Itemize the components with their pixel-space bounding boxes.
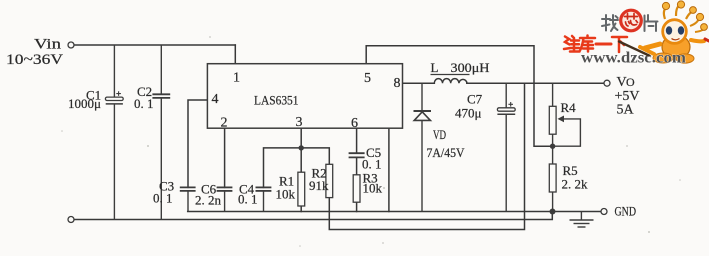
svg-text:www.dzsc.com: www.dzsc.com <box>581 50 687 67</box>
wire R2 bottom to output rail <box>329 83 524 229</box>
svg-text:C7: C7 <box>467 92 483 107</box>
svg-text:300μH: 300μH <box>451 60 490 75</box>
capacitor C7 470u electrolytic <box>497 83 515 211</box>
capacitor C6 2.2n <box>217 187 233 211</box>
svg-text:Vin: Vin <box>34 37 62 53</box>
ground symbol <box>570 212 594 228</box>
wire R1 bottom to ground rail <box>300 206 302 212</box>
bottom return rail <box>74 212 552 220</box>
svg-text:5: 5 <box>364 71 371 86</box>
wire IC ground lead <box>388 128 390 211</box>
svg-text:7A/45V: 7A/45V <box>427 145 466 160</box>
terminal bottom left <box>68 217 74 223</box>
capacitor C1 1000u electrolytic <box>105 45 123 220</box>
svg-text:8: 8 <box>394 76 401 91</box>
svg-text:L: L <box>431 60 439 75</box>
junction dot R4/R5 <box>550 144 555 149</box>
svg-text:R4: R4 <box>561 100 577 115</box>
terminal GND <box>601 209 607 215</box>
wire Vin top rail <box>74 44 235 46</box>
wire node to R2 <box>301 148 329 164</box>
svg-text:5A: 5A <box>617 103 635 118</box>
capacitor C5 0.1 <box>349 153 365 157</box>
svg-text:0. 1: 0. 1 <box>238 192 258 207</box>
svg-text:2: 2 <box>221 116 228 131</box>
junction dot ground <box>550 209 556 215</box>
svg-text:2. 2k: 2. 2k <box>562 177 589 192</box>
wire pin 2 to C6 <box>224 128 226 187</box>
svg-text:3: 3 <box>296 115 303 130</box>
wire pin 6 to C5 <box>356 128 358 153</box>
svg-text:GND: GND <box>615 204 637 219</box>
wire pin 4 to C3 <box>188 100 207 187</box>
wire pin 5 feedback loop <box>366 46 551 147</box>
watermark logo <box>564 1 709 67</box>
wire C5 to R3 <box>356 157 358 174</box>
resistor R5 2.2k <box>549 146 556 211</box>
svg-text:91k: 91k <box>309 178 329 193</box>
svg-text:6: 6 <box>351 116 358 131</box>
wire inductor to Vo terminal <box>467 82 604 84</box>
wire pin 1 <box>234 45 236 64</box>
diode VD <box>414 83 432 211</box>
svg-text:10k: 10k <box>363 181 383 196</box>
wire pin 8 to inductor <box>403 82 435 84</box>
svg-text:0. 1: 0. 1 <box>153 191 173 206</box>
node pin3 junction <box>299 145 304 150</box>
inductor L 300uH <box>434 79 467 84</box>
wire pin 3 to R1 <box>300 128 302 172</box>
terminal Vo <box>604 80 610 86</box>
svg-text:VD: VD <box>433 127 446 142</box>
wire node to C4 <box>264 148 302 188</box>
IC U1 LAS6351 <box>207 64 402 129</box>
capacitor C3 0.1 <box>180 187 196 211</box>
resistor R1 10k <box>298 172 305 206</box>
svg-text:1000μ: 1000μ <box>68 96 101 111</box>
wire R3 to ground rail <box>356 202 358 211</box>
resistor R3 10k <box>353 175 360 202</box>
capacitor C2 0.1 <box>152 45 170 220</box>
svg-text:4: 4 <box>212 92 219 107</box>
terminal Vin <box>68 42 74 48</box>
svg-text:LAS6351: LAS6351 <box>254 92 299 107</box>
svg-text:470μ: 470μ <box>455 106 482 121</box>
svg-text:10k: 10k <box>276 187 296 202</box>
inductor label underline <box>431 74 470 76</box>
potentiometer R4 <box>549 83 580 146</box>
svg-text:1: 1 <box>233 70 240 85</box>
capacitor C4 0.1 <box>256 187 272 211</box>
ground rail <box>188 211 602 213</box>
scan speckles <box>61 36 681 247</box>
svg-text:10~36V: 10~36V <box>6 52 63 68</box>
svg-text:0. 1: 0. 1 <box>362 157 382 172</box>
svg-text:O: O <box>626 75 635 89</box>
svg-text:2. 2n: 2. 2n <box>195 193 222 208</box>
svg-text:0. 1: 0. 1 <box>134 96 154 111</box>
resistor R2 91k <box>326 164 333 197</box>
